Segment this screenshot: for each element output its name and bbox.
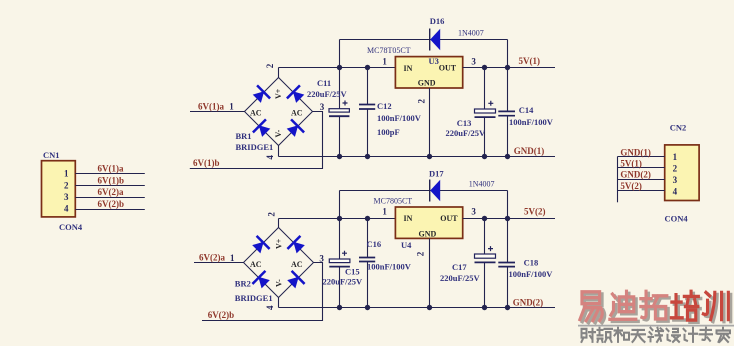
net label 6V(1)b	[193, 158, 220, 168]
svg-text:C15: C15	[345, 267, 360, 277]
pin 2 of CN2	[673, 164, 678, 174]
svg-text:2: 2	[415, 251, 425, 256]
svg-text:1N4007: 1N4007	[469, 179, 495, 188]
diode BR1 bottom-right	[284, 119, 304, 139]
wire CN2 left vertical stub	[617, 157, 619, 203]
svg-text:C14: C14	[519, 105, 534, 115]
svg-text:C12: C12	[377, 101, 392, 111]
wire C15 column lower	[339, 267, 341, 308]
pin 1 of U4	[382, 206, 387, 216]
capacitor C15	[329, 251, 350, 267]
pin 3 of U3	[471, 57, 476, 67]
pin name IN U3	[404, 64, 413, 73]
svg-text:D17: D17	[429, 169, 444, 179]
svg-text:GND: GND	[418, 78, 436, 87]
svg-text:C18: C18	[524, 258, 539, 268]
logo subtitle 射频和天线设计专家	[582, 328, 731, 342]
svg-text:1N4007: 1N4007	[458, 29, 484, 38]
svg-text:5V(2): 5V(2)	[524, 207, 546, 217]
svg-text:GND(2): GND(2)	[620, 170, 651, 180]
svg-text:GND: GND	[419, 229, 437, 238]
svg-text:1: 1	[64, 169, 69, 179]
wire ground rail GND(2)	[279, 307, 556, 309]
value C18 100nF/100V	[509, 269, 554, 279]
svg-text:6V(1)a: 6V(1)a	[98, 164, 124, 174]
logo char di	[610, 291, 636, 319]
pin name GND U3	[418, 78, 436, 87]
pin 2 of CN1	[64, 180, 69, 190]
value C14 100nF/100V	[509, 117, 554, 127]
value BRIDGE1 of BR2	[235, 293, 273, 303]
net label 6V(1)a at CN1	[98, 164, 124, 174]
diode D17	[430, 180, 441, 202]
svg-text:3: 3	[471, 57, 476, 67]
pin 3 of BR2	[319, 254, 324, 264]
svg-text:C11: C11	[317, 78, 331, 88]
wire CN1 pin4	[75, 209, 145, 211]
wire U3 pin2 to ground rail	[429, 88, 431, 157]
wire U4 pin2 to ground rail	[429, 238, 431, 307]
svg-text:C17: C17	[452, 262, 467, 272]
svg-text:IN: IN	[404, 214, 413, 223]
net label 5V(2) at CN2	[620, 181, 642, 191]
net label 6V(2)a at CN1	[98, 187, 124, 197]
svg-text:V+: V+	[274, 88, 283, 99]
diode BR1 top-left	[250, 85, 270, 105]
svg-text:CN1: CN1	[43, 150, 60, 160]
wire 6V(1)b route	[190, 112, 323, 169]
net label 6V(2)b at CN1	[98, 199, 125, 209]
designator BR1	[236, 131, 252, 141]
wire C15 column upper	[339, 219, 341, 260]
value MC78T05CT	[367, 46, 411, 55]
pin 4 of BR2	[265, 305, 275, 310]
pin 4 of CN2	[673, 187, 678, 197]
svg-text:100nF/100V: 100nF/100V	[509, 117, 554, 127]
wire C14 column lower	[507, 116, 509, 157]
diode BR2 bottom-right	[285, 270, 305, 290]
net label GND(1)	[514, 146, 545, 156]
svg-text:MC7805CT: MC7805CT	[374, 197, 413, 206]
label V- BR2	[275, 279, 284, 287]
svg-text:2: 2	[417, 99, 427, 104]
wire BR1 pin4 riser	[278, 146, 280, 157]
svg-text:MC78T05CT: MC78T05CT	[367, 46, 411, 55]
wire C16 column lower	[367, 262, 369, 308]
svg-text:4: 4	[64, 204, 69, 214]
junction dots bottom section	[337, 216, 510, 310]
svg-text:220uF/25V: 220uF/25V	[446, 128, 487, 138]
svg-text:100nF/100V: 100nF/100V	[377, 113, 422, 123]
wire C17 column lower	[484, 263, 486, 308]
designator C18	[524, 258, 539, 268]
label AC left BR1	[250, 109, 262, 118]
wire U4 output rail	[463, 218, 555, 220]
net label GND(2)	[513, 298, 544, 308]
svg-text:220uF/25V: 220uF/25V	[323, 276, 364, 286]
op-amp U4 regulator box	[395, 207, 462, 238]
svg-text:100nF/100V: 100nF/100V	[509, 269, 554, 279]
designator D17	[429, 169, 444, 179]
bridge BR2 body	[244, 228, 314, 298]
net label 6V(1)b at CN1	[98, 175, 125, 185]
capacitor C11	[329, 101, 349, 117]
svg-text:1: 1	[382, 56, 387, 66]
wire D17 rail	[340, 190, 508, 192]
pin name OUT U4	[440, 214, 458, 223]
value BRIDGE1	[236, 142, 274, 152]
label AC right BR2	[291, 260, 303, 269]
svg-text:1: 1	[229, 102, 234, 112]
logo char xun	[703, 292, 728, 319]
wire CN1 pin1	[75, 173, 145, 175]
wire C13 column lower	[484, 117, 486, 156]
pin 3 of CN1	[64, 192, 69, 202]
svg-text:6V(2)a: 6V(2)a	[98, 187, 124, 197]
svg-text:5V(2): 5V(2)	[620, 181, 642, 191]
pin 1 of CN2	[673, 152, 678, 162]
svg-text:U4: U4	[401, 240, 412, 250]
wire CN2 pin2	[618, 167, 665, 169]
wire C14 column upper with corner from D16 rail	[507, 40, 509, 112]
designator CN1	[43, 150, 60, 160]
svg-text:C13: C13	[457, 118, 472, 128]
designator CN2	[670, 123, 687, 133]
net label 6V(2)a	[199, 252, 225, 262]
diode BR1 top-right	[286, 85, 306, 105]
svg-text:6V(1)b: 6V(1)b	[193, 158, 220, 168]
bridge BR1 body	[245, 78, 313, 146]
svg-text:220uF/25V: 220uF/25V	[307, 89, 348, 99]
wire input rail to U3 pin1	[279, 67, 396, 69]
svg-text:CON4: CON4	[59, 222, 83, 232]
svg-text:AC: AC	[291, 260, 303, 269]
pin 4 of BR1	[265, 155, 275, 160]
wire CN2 pin1	[618, 156, 665, 158]
diode BR2 top-right	[287, 235, 307, 255]
net label GND(2) at CN2	[620, 170, 651, 180]
watermark logo 易迪拓培训	[578, 291, 734, 342]
svg-text:6V(2)b: 6V(2)b	[98, 199, 125, 209]
net label 6V(2)b	[208, 310, 235, 320]
value C17 220uF/25V	[440, 273, 481, 283]
pin 1 of U3	[382, 56, 387, 66]
svg-text:6V(2)b: 6V(2)b	[208, 310, 235, 320]
wire D16 rail	[340, 39, 508, 41]
svg-text:D16: D16	[430, 16, 445, 26]
designator U4	[401, 240, 412, 250]
op-amp U3 regulator box	[395, 57, 462, 88]
pin 1 of CN1	[64, 169, 69, 179]
svg-text:5V(1): 5V(1)	[620, 159, 642, 169]
pin 1 of BR2	[230, 253, 235, 263]
wire CN2 pin4	[618, 190, 665, 192]
pin 3 of CN2	[673, 175, 678, 185]
diode D16	[430, 29, 441, 51]
svg-text:100pF: 100pF	[377, 127, 400, 137]
svg-text:220uF/25V: 220uF/25V	[440, 273, 481, 283]
designator U3	[429, 56, 439, 66]
svg-text:V-: V-	[274, 129, 283, 137]
svg-text:3: 3	[320, 102, 325, 112]
value CON4 of CN1	[59, 222, 83, 232]
junction dots top section	[337, 65, 510, 159]
wire input rail to U4 pin1	[279, 218, 396, 220]
capacitor C12	[359, 105, 375, 110]
svg-text:OUT: OUT	[440, 214, 458, 223]
svg-text:4: 4	[265, 305, 275, 310]
designator C11	[317, 78, 331, 88]
pin name GND U4	[419, 229, 437, 238]
svg-text:1: 1	[382, 206, 387, 216]
value 1N4007 of D17	[469, 179, 495, 188]
svg-text:V-: V-	[275, 279, 284, 287]
capacitor C13	[475, 101, 496, 117]
wire 6V(1)a stub to BR1 pin1	[190, 111, 245, 113]
designator C15	[345, 267, 360, 277]
pin 2 of U3	[417, 99, 427, 104]
label V- BR1	[274, 129, 283, 137]
svg-text:BR2: BR2	[235, 279, 251, 289]
svg-text:AC: AC	[250, 109, 262, 118]
svg-text:2: 2	[265, 63, 275, 68]
capacitor C17	[475, 246, 496, 262]
svg-text:OUT: OUT	[439, 63, 457, 72]
value CON4 of CN2	[665, 214, 689, 224]
svg-text:6V(2)a: 6V(2)a	[199, 252, 225, 262]
svg-text:2: 2	[267, 212, 277, 217]
designator C14	[519, 105, 534, 115]
wire CN1 pin3	[75, 197, 145, 199]
svg-text:CN2: CN2	[670, 123, 687, 133]
wire 6V(2)b route	[202, 263, 323, 321]
label AC right BR1	[291, 109, 303, 118]
svg-text:100nF/100V: 100nF/100V	[367, 262, 412, 272]
capacitor C16	[359, 258, 375, 262]
value C13 220uF/25V	[446, 128, 487, 138]
wire C18 column upper with corner from D17 rail	[507, 191, 509, 263]
value C11 220uF/25V	[307, 89, 348, 99]
svg-text:4: 4	[673, 187, 678, 197]
wire 6V(2)a stub to BR2 pin1	[194, 262, 244, 264]
svg-text:GND(1): GND(1)	[620, 148, 651, 158]
wire C17 column upper	[484, 219, 486, 255]
value C12 100nF/100V	[377, 113, 422, 123]
pin 3 of BR1	[320, 102, 325, 112]
svg-text:6V(1)b: 6V(1)b	[98, 175, 125, 185]
net label 5V(1)	[519, 56, 541, 66]
wire C11 column lower	[339, 116, 341, 156]
pin 2 of BR2	[267, 212, 277, 217]
pin 3 of U4	[471, 207, 476, 217]
wire BR2 pin2 riser	[278, 219, 280, 228]
wire CN1 pin2	[75, 185, 145, 187]
svg-text:6V(1)a: 6V(1)a	[198, 101, 224, 111]
svg-text:3: 3	[471, 207, 476, 217]
designator C13	[457, 118, 472, 128]
svg-text:2: 2	[64, 180, 69, 190]
capacitor C18	[498, 263, 515, 267]
svg-text:IN: IN	[404, 64, 413, 73]
pin 1 of BR1	[229, 102, 234, 112]
pin 2 of U4	[415, 251, 425, 256]
wire C13 column upper	[484, 68, 486, 110]
diode BR2 top-left	[250, 235, 270, 255]
net label 6V(1)a	[198, 101, 224, 111]
wire C18 column lower	[507, 267, 509, 308]
value C16 100nF/100V	[367, 262, 412, 272]
svg-text:3: 3	[673, 175, 678, 185]
logo char pei	[671, 291, 698, 320]
svg-text:BRIDGE1: BRIDGE1	[236, 142, 274, 152]
svg-text:BR1: BR1	[236, 131, 252, 141]
diode BR2 bottom-left	[252, 270, 272, 290]
svg-text:1: 1	[673, 152, 678, 162]
wire C16 column upper	[367, 219, 369, 258]
pin name OUT U3	[439, 63, 457, 72]
svg-text:U3: U3	[429, 56, 439, 66]
net label 5V(2)	[524, 207, 546, 217]
logo shadow layer	[582, 293, 730, 322]
svg-text:BRIDGE1: BRIDGE1	[235, 293, 273, 303]
wire riser to D17 rail	[339, 191, 341, 219]
diode BR1 bottom-left	[252, 119, 272, 139]
pin 2 of BR1	[265, 63, 275, 68]
pin 4 of CN1	[64, 204, 69, 214]
wire C12 column lower	[367, 109, 369, 156]
wire C11 column upper	[339, 68, 341, 109]
connector CN1	[42, 161, 76, 217]
connector CN2	[665, 145, 699, 201]
svg-text:AC: AC	[291, 109, 303, 118]
wire U3 output rail	[463, 67, 555, 69]
svg-text:1: 1	[230, 253, 235, 263]
pin name IN U4	[404, 214, 413, 223]
value C15 220uF/25V	[323, 276, 364, 286]
wire CN2 pin3	[618, 179, 665, 181]
logo char yi	[580, 292, 602, 321]
wire riser to D16 rail	[339, 40, 341, 68]
value 1N4007 of D16	[458, 29, 484, 38]
value C12 100pF	[377, 127, 400, 137]
wire C12 column upper	[367, 68, 369, 105]
designator C12	[377, 101, 392, 111]
logo char tuo	[641, 291, 667, 319]
svg-text:C16: C16	[367, 239, 382, 249]
value MC7805CT	[374, 197, 413, 206]
svg-text:4: 4	[265, 155, 275, 160]
svg-text:2: 2	[673, 164, 678, 174]
designator BR2	[235, 279, 251, 289]
svg-text:3: 3	[64, 192, 69, 202]
wire BR2 pin4 riser	[278, 298, 280, 308]
svg-text:GND(2): GND(2)	[513, 298, 544, 308]
designator D16	[430, 16, 445, 26]
svg-text:AC: AC	[250, 260, 262, 269]
net label 5V(1) at CN2	[620, 159, 642, 169]
designator C17	[452, 262, 467, 272]
svg-text:5V(1): 5V(1)	[519, 56, 541, 66]
label AC left BR2	[250, 260, 262, 269]
wire ground rail GND(1)	[279, 156, 556, 158]
label V+ BR2	[275, 238, 284, 249]
wire BR1 pin2 riser	[278, 68, 280, 78]
svg-text:GND(1): GND(1)	[514, 146, 545, 156]
capacitor C14	[498, 111, 515, 115]
designator C16	[367, 239, 382, 249]
logo underline	[578, 325, 734, 327]
label V+ BR1	[274, 88, 283, 99]
svg-text:V+: V+	[275, 238, 284, 249]
svg-text:CON4: CON4	[665, 214, 689, 224]
net label GND(1) at CN2	[620, 148, 651, 158]
